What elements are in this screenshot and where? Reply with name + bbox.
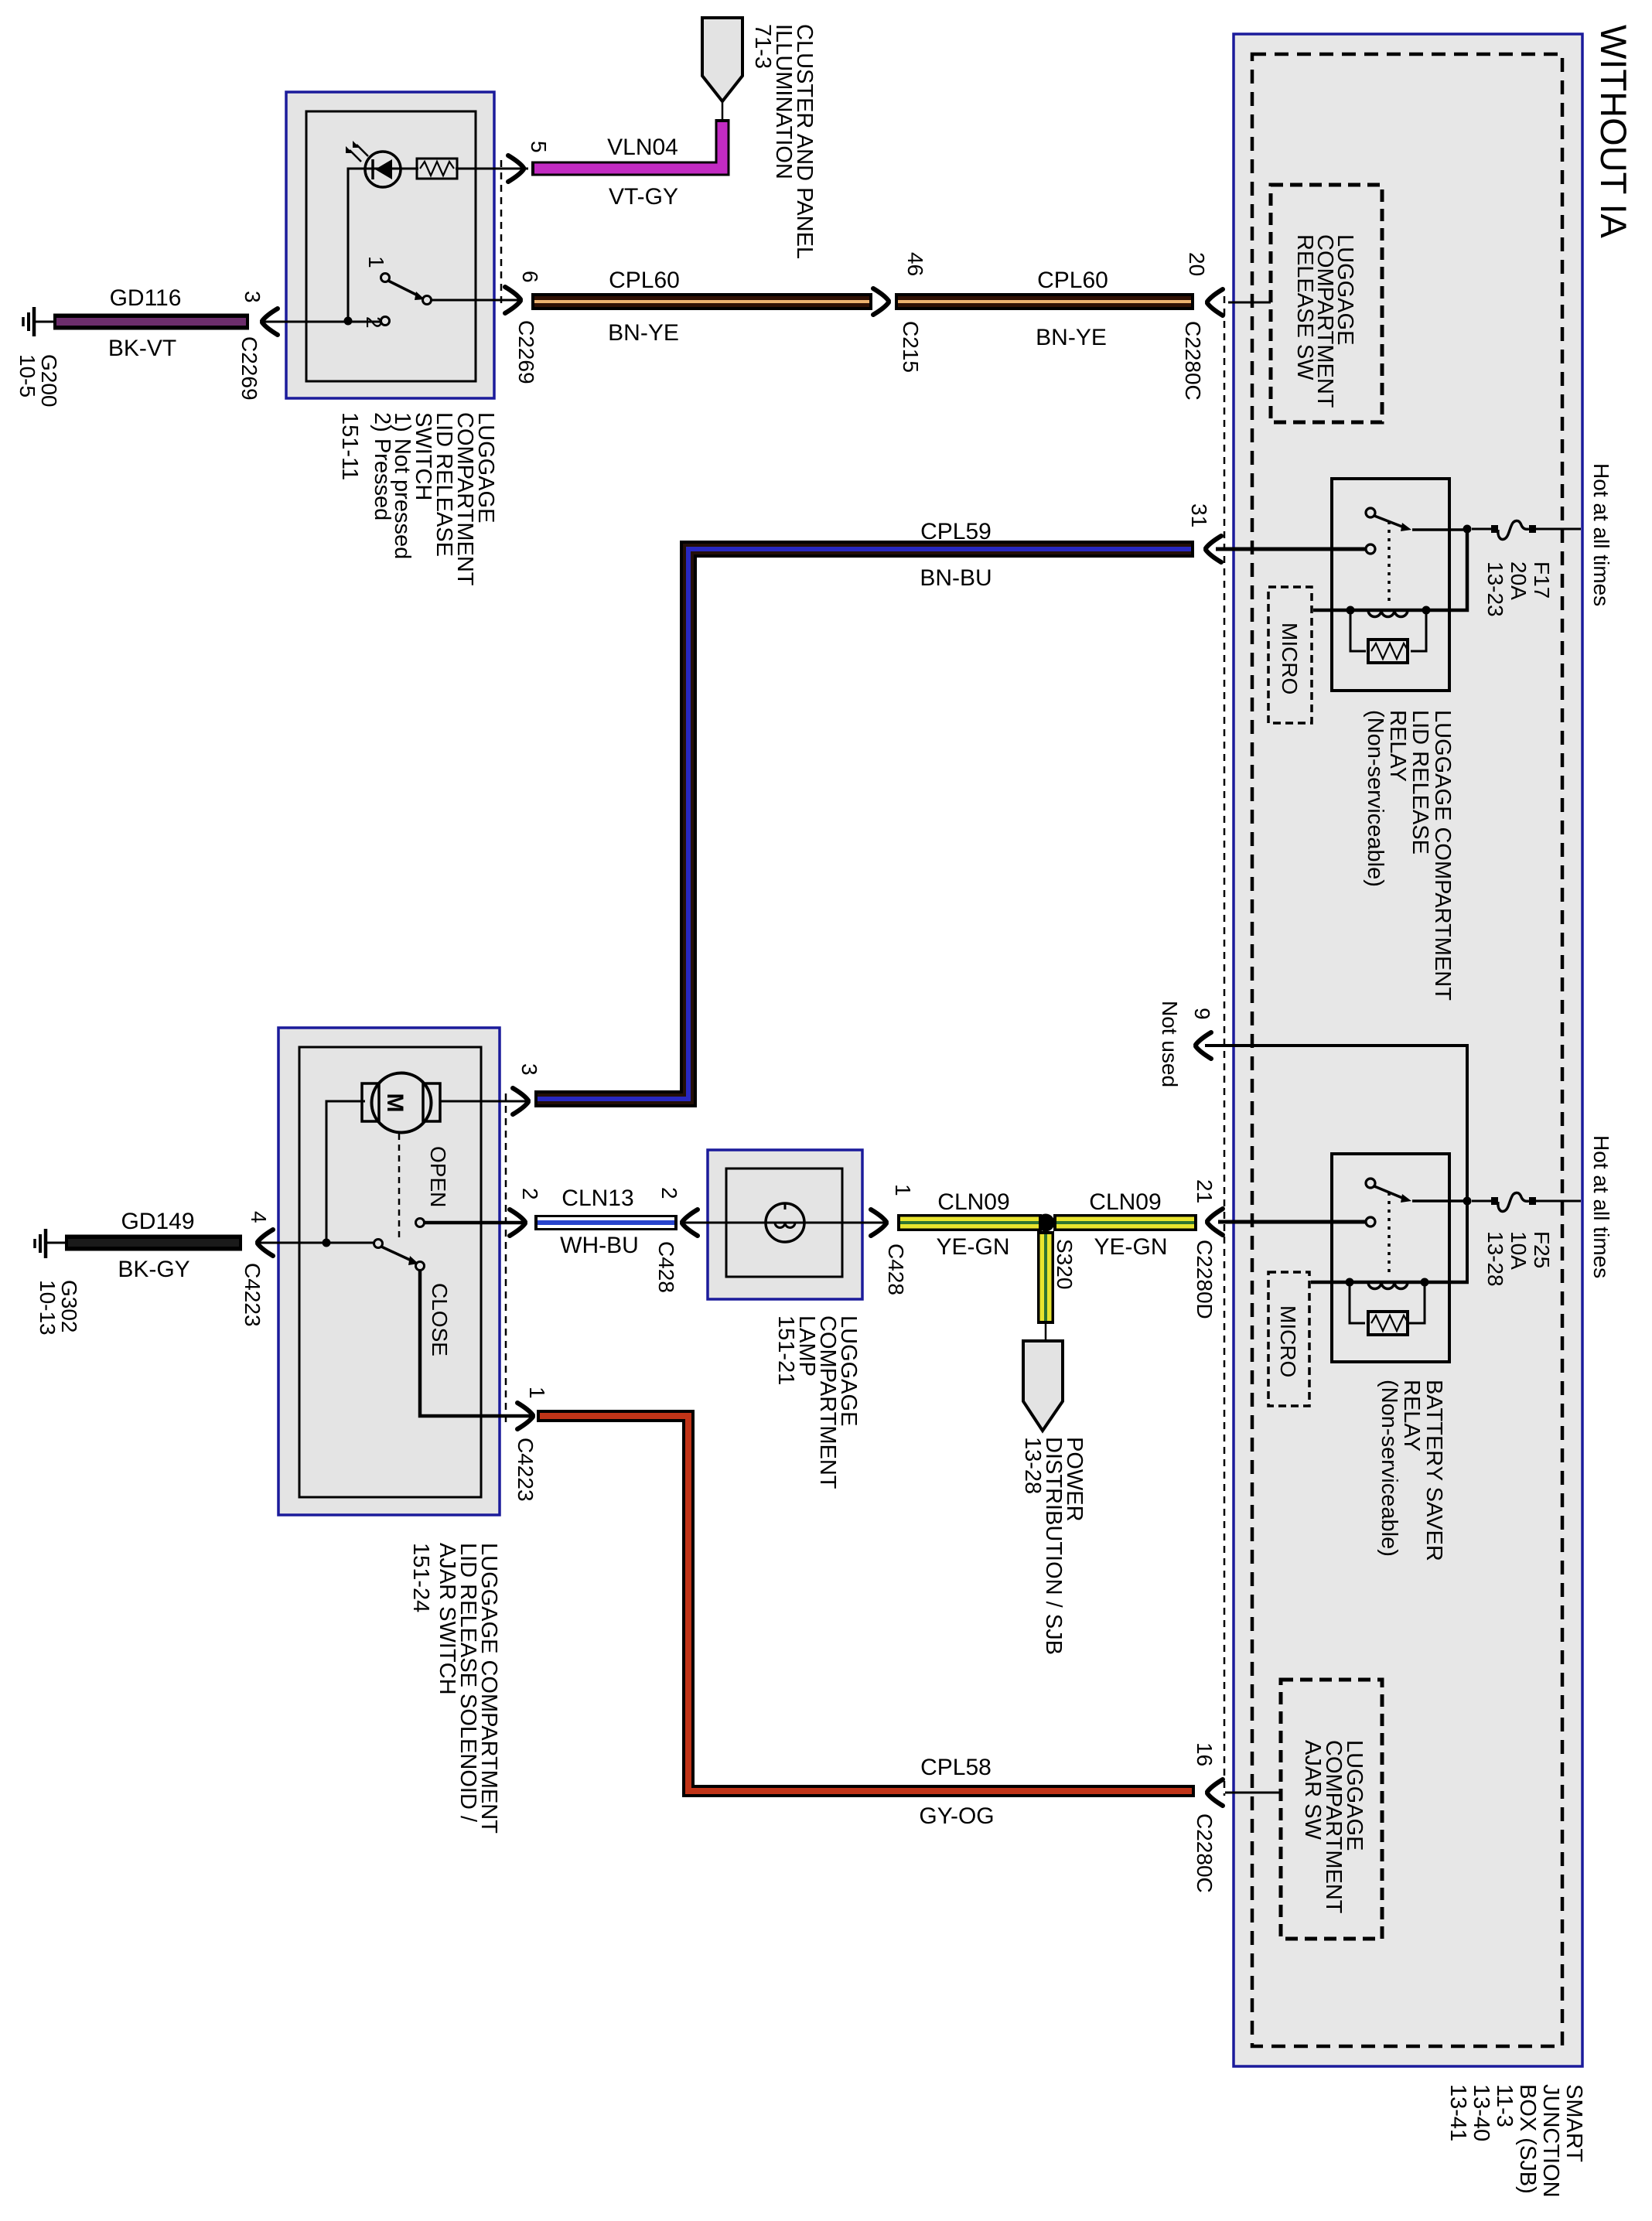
off-page connector cluster illumination (722, 101, 724, 121)
svg-text:13-23: 13-23 (1483, 561, 1507, 617)
svg-text:13-28: 13-28 (1483, 1231, 1507, 1287)
svg-text:5: 5 (527, 141, 551, 153)
solenoid pin2 arrow (510, 1209, 525, 1236)
luggage compartment lid release solenoid box (278, 1028, 500, 1515)
svg-text:20: 20 (1185, 252, 1209, 276)
svg-text:20A: 20A (1507, 561, 1531, 600)
svg-text:C2280D: C2280D (1193, 1240, 1217, 1319)
svg-text:3: 3 (517, 1063, 541, 1076)
svg-text:C2280C: C2280C (1193, 1813, 1217, 1893)
relay K1 resistor (1350, 610, 1426, 651)
wire led to pin5 (456, 168, 528, 170)
svg-text:(Non-serviceable): (Non-serviceable) (1363, 710, 1387, 887)
svg-text:M: M (382, 1093, 408, 1113)
svg-text:CLN13: CLN13 (561, 1186, 633, 1211)
lamp pin2 arrow (682, 1209, 698, 1236)
svg-text:2: 2 (657, 1187, 681, 1199)
relay K2 junction (1463, 1197, 1472, 1206)
lamp L1 (766, 1203, 804, 1242)
svg-text:F17: F17 (1530, 561, 1554, 599)
wire GD116 BK-VT (53, 314, 249, 330)
svg-text:G302: G302 (57, 1280, 81, 1333)
pin 9 arrow (1196, 1032, 1211, 1059)
pin 21 arrow (1207, 1209, 1223, 1235)
svg-text:11-3: 11-3 (1492, 2084, 1517, 2127)
solenoid pin3 arrow (513, 1088, 528, 1114)
svg-text:YE-GN: YE-GN (1094, 1234, 1167, 1260)
lamp pin1 arrow (871, 1209, 886, 1236)
svg-text:2: 2 (518, 1188, 542, 1200)
luggage compartment release sw dashed box (1271, 185, 1382, 422)
svg-text:C2280C: C2280C (1181, 321, 1205, 401)
switch junction node (344, 317, 353, 326)
svg-text:BK-GY: BK-GY (118, 1257, 189, 1282)
motor left lead (326, 1101, 365, 1243)
svg-text:31: 31 (1187, 503, 1211, 527)
wire GD149 BK-GY (65, 1235, 242, 1251)
pin 31 lead (1216, 548, 1366, 551)
pin 31 arrow (1206, 536, 1221, 562)
svg-text:C2269: C2269 (514, 320, 538, 384)
wire CPL59 BN-BU (534, 549, 1194, 1099)
connector C2280 dashed line (1224, 296, 1226, 1796)
relay K2 dotted link (1387, 1192, 1391, 1278)
off-page connector power distribution (1045, 1324, 1047, 1343)
relay K2 box (1332, 1154, 1449, 1362)
svg-text:BN-YE: BN-YE (1036, 325, 1107, 350)
svg-text:GD116: GD116 (110, 285, 182, 311)
splice S320 (1037, 1214, 1055, 1232)
svg-text:Hot at all times: Hot at all times (1589, 1135, 1613, 1278)
luggage compartment ajar sw dashed box (1281, 1680, 1382, 1939)
relay K1 blade (1374, 516, 1406, 528)
solenoid pin1 arrow (517, 1403, 533, 1429)
svg-text:2) Pressed: 2) Pressed (370, 412, 394, 520)
svg-text:BN-BU: BN-BU (920, 565, 992, 591)
motor right lead pin3 (440, 1100, 526, 1103)
ground G302 (44, 1229, 48, 1258)
relay K2 resistor (1350, 1282, 1425, 1323)
relay K1 coil (1368, 610, 1408, 617)
svg-text:MICRO: MICRO (1278, 623, 1302, 694)
svg-text:F25: F25 (1530, 1231, 1554, 1268)
solenoid switch pivot (374, 1240, 383, 1248)
pin 2 lead (424, 1221, 523, 1225)
svg-text:(Non-serviceable): (Non-serviceable) (1377, 1380, 1401, 1557)
LED D1 (365, 152, 401, 187)
solenoid junction node (323, 1239, 331, 1247)
pin 16 lead into SJB (1225, 1792, 1281, 1794)
relay K1 blade line to fuse (1412, 528, 1463, 531)
SJB inner dashed border (1252, 54, 1562, 2046)
pin 5 arrow (508, 155, 524, 182)
svg-text:C2269: C2269 (237, 336, 261, 401)
svg-text:CPL60: CPL60 (609, 268, 680, 293)
switch common line pin3 (263, 321, 381, 323)
luggage compartment lamp box (708, 1150, 862, 1299)
pin 1 lead (420, 1271, 531, 1416)
relay K1 coil nodes (1347, 606, 1355, 615)
switch contact 2 (381, 317, 390, 326)
wire CLN09 YE-GN segment 1 (897, 1214, 1042, 1231)
svg-text:LUGGAGE COMPARTMENT: LUGGAGE COMPARTMENT (1430, 710, 1455, 1001)
wire led branch (348, 169, 418, 321)
switch contact to pin6 (423, 296, 432, 305)
svg-text:10-13: 10-13 (36, 1280, 60, 1336)
svg-text:CPL59: CPL59 (920, 519, 992, 544)
svg-text:AJAR SW: AJAR SW (1300, 1740, 1325, 1841)
svg-text:10A: 10A (1507, 1231, 1531, 1270)
svg-text:BOX (SJB): BOX (SJB) (1515, 2084, 1540, 2194)
pin 3 arrow (262, 309, 278, 335)
pin 9 lead (1205, 1046, 1467, 1282)
connector C215 (873, 288, 889, 315)
svg-text:S320: S320 (1053, 1239, 1077, 1289)
svg-text:13-41: 13-41 (1445, 2084, 1470, 2141)
svg-text:6: 6 (518, 271, 542, 283)
svg-text:BK-VT: BK-VT (108, 336, 176, 361)
connector C2269 dashed line (500, 160, 503, 307)
svg-text:CPL60: CPL60 (1037, 268, 1108, 293)
pin 4 lead (258, 1242, 374, 1244)
lamp wire through (684, 1222, 887, 1224)
switch blade (388, 281, 419, 296)
svg-text:71-3: 71-3 (750, 24, 775, 69)
svg-text:10-5: 10-5 (15, 354, 39, 397)
wire CPL58 GY-OG (537, 1416, 1195, 1791)
wire CLN13 WH-BU (534, 1215, 678, 1230)
svg-text:CLN09: CLN09 (937, 1189, 1009, 1215)
svg-text:G200: G200 (37, 354, 61, 408)
svg-text:Not used: Not used (1158, 1001, 1182, 1087)
pin 21 lead (1218, 1220, 1366, 1224)
relay K1 box (1332, 479, 1449, 691)
connector C4223 dashed line (505, 1093, 507, 1423)
svg-text:GD149: GD149 (121, 1209, 194, 1234)
relay K1 NO contact (1366, 544, 1375, 554)
svg-text:WITHOUT IA: WITHOUT IA (1593, 25, 1634, 239)
svg-text:4: 4 (247, 1211, 271, 1223)
wire CLN09 YE-GN drop to S320 (1037, 1231, 1054, 1324)
svg-text:1: 1 (525, 1387, 549, 1399)
svg-text:BN-YE: BN-YE (608, 320, 679, 346)
pin 20 lead into SJB (1228, 302, 1271, 304)
relay K2 blade (1374, 1186, 1406, 1199)
MICRO box 1 (1268, 587, 1312, 723)
relay K2 common contact (1366, 1179, 1375, 1188)
wire CPL60 BN-YE segment 2 (895, 293, 1194, 310)
solenoid inner box (299, 1047, 481, 1497)
svg-text:2: 2 (362, 316, 386, 329)
svg-text:AJAR SWITCH: AJAR SWITCH (435, 1543, 459, 1695)
svg-text:1: 1 (364, 256, 388, 268)
svg-text:WH-BU: WH-BU (560, 1233, 639, 1258)
fuse F17 (1472, 528, 1494, 531)
luggage compartment lid release switch box (286, 92, 494, 398)
lamp inner box (726, 1168, 842, 1277)
svg-text:CLN09: CLN09 (1089, 1189, 1161, 1215)
svg-text:C428: C428 (884, 1244, 908, 1295)
switch inner box (306, 111, 476, 381)
motor mech dashed link (398, 1134, 401, 1237)
resistor R1 (417, 159, 457, 179)
solenoid OPEN contact (416, 1219, 425, 1227)
svg-text:RELAY: RELAY (1399, 1380, 1424, 1452)
solenoid switch blade (381, 1247, 413, 1261)
relay K2 coil line (1311, 1281, 1469, 1284)
relay K2 blade line to fuse (1412, 1199, 1463, 1203)
svg-text:1: 1 (891, 1184, 915, 1196)
svg-text:C215: C215 (899, 321, 923, 373)
svg-text:CLOSE: CLOSE (428, 1283, 452, 1356)
ground G200 (32, 307, 36, 336)
relay K2 coil (1368, 1282, 1408, 1289)
svg-text:151-21: 151-21 (773, 1315, 798, 1385)
svg-text:Hot at all times: Hot at all times (1589, 463, 1613, 606)
svg-text:C4223: C4223 (241, 1263, 265, 1327)
MICRO box 2 (1268, 1272, 1309, 1406)
relay K2 NO contact (1366, 1217, 1375, 1226)
switch contact 1 pivot (381, 274, 390, 282)
svg-text:16: 16 (1193, 1742, 1217, 1766)
svg-text:21: 21 (1193, 1179, 1217, 1203)
svg-text:BATTERY SAVER: BATTERY SAVER (1422, 1380, 1446, 1561)
pin 6 arrow (505, 287, 521, 313)
motor M1 (362, 1083, 379, 1121)
svg-text:9: 9 (1190, 1008, 1214, 1020)
svg-text:GY-OG: GY-OG (919, 1803, 994, 1829)
svg-text:RELAY: RELAY (1385, 710, 1410, 782)
svg-text:RELEASE SW: RELEASE SW (1292, 234, 1317, 380)
svg-text:13-28: 13-28 (1020, 1437, 1045, 1494)
svg-text:VLN04: VLN04 (607, 135, 678, 160)
svg-text:C4223: C4223 (514, 1438, 538, 1502)
svg-text:46: 46 (903, 252, 927, 276)
pin 4 arrow (258, 1230, 273, 1256)
svg-text:151-11: 151-11 (337, 412, 362, 480)
svg-text:VT-GY: VT-GY (609, 184, 678, 210)
wire CLN09 YE-GN segment 2 (1053, 1214, 1197, 1231)
svg-text:OPEN: OPEN (426, 1146, 450, 1207)
svg-text:C428: C428 (654, 1241, 678, 1293)
relay K2 coil nodes (1346, 1278, 1354, 1287)
solenoid CLOSE contact (416, 1262, 425, 1271)
svg-text:YE-GN: YE-GN (936, 1234, 1009, 1260)
wire VLN04 VT-GY (531, 119, 722, 169)
pin 16 arrow (1207, 1779, 1223, 1806)
relay K1 dotted link (1387, 521, 1391, 605)
svg-text:151-24: 151-24 (408, 1543, 433, 1612)
SJB smart junction box outline (1234, 34, 1582, 2066)
pin 20 arrow (1207, 289, 1223, 316)
svg-text:LID RELEASE: LID RELEASE (1408, 710, 1432, 855)
relay K1 common contact (1366, 508, 1375, 517)
svg-text:MICRO: MICRO (1276, 1305, 1300, 1377)
svg-text:13-40: 13-40 (1469, 2084, 1493, 2141)
svg-text:CPL58: CPL58 (920, 1755, 992, 1780)
fuse F25 (1472, 1200, 1494, 1203)
svg-text:SMART: SMART (1562, 2084, 1586, 2162)
svg-text:JUNCTION: JUNCTION (1538, 2084, 1563, 2198)
relay K1 coil line (1313, 529, 1467, 610)
wire CPL60 BN-YE segment 1 (531, 293, 872, 310)
svg-text:3: 3 (241, 291, 265, 303)
relay K1 junction (1463, 525, 1472, 534)
